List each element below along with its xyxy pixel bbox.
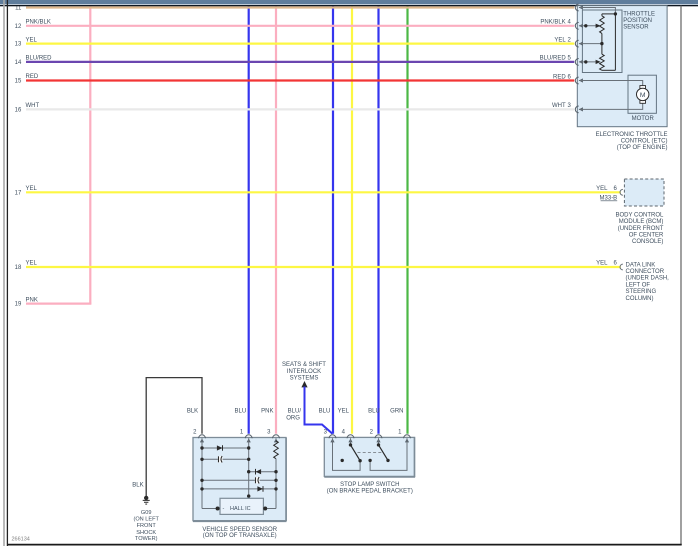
svg-text:FRONT: FRONT	[137, 523, 157, 529]
svg-text:266134: 266134	[12, 537, 30, 543]
svg-text:BLU/RED: BLU/RED	[26, 56, 53, 62]
svg-text:BLK: BLK	[187, 409, 198, 415]
svg-text:BLU: BLU	[319, 409, 331, 415]
svg-text:THROTTLE: THROTTLE	[623, 11, 655, 17]
svg-text:TOWER): TOWER)	[135, 536, 158, 542]
svg-text:PNK/BLK: PNK/BLK	[26, 20, 51, 26]
svg-text:(ON TOP OF TRANSAXLE): (ON TOP OF TRANSAXLE)	[203, 533, 277, 539]
svg-text:CONTROL (ETC): CONTROL (ETC)	[621, 139, 668, 145]
svg-text:RED: RED	[553, 74, 566, 80]
svg-text:INTERLOCK: INTERLOCK	[287, 369, 321, 375]
svg-text:BLU: BLU	[368, 409, 380, 415]
svg-text:BLU/RED: BLU/RED	[540, 56, 567, 62]
svg-text:STOP LAMP SWITCH: STOP LAMP SWITCH	[340, 482, 399, 488]
svg-text:(UNDER FRONT: (UNDER FRONT	[618, 226, 664, 232]
svg-text:YEL: YEL	[26, 261, 38, 267]
svg-text:-: -	[223, 506, 225, 512]
svg-text:WHT: WHT	[552, 103, 566, 109]
svg-text:ORG: ORG	[286, 415, 300, 421]
svg-text:(ON BRAKE PEDAL BRACKET): (ON BRAKE PEDAL BRACKET)	[327, 488, 413, 494]
svg-text:BLU: BLU	[235, 409, 247, 415]
svg-text:G09: G09	[141, 510, 152, 516]
svg-text:RED: RED	[26, 74, 39, 80]
svg-text:M: M	[640, 92, 646, 99]
svg-text:11: 11	[15, 6, 22, 12]
svg-text:COLUMN): COLUMN)	[626, 296, 654, 302]
svg-text:15: 15	[15, 79, 22, 85]
svg-text:13: 13	[15, 42, 22, 48]
svg-text:YEL: YEL	[596, 261, 608, 267]
svg-text:SYSTEMS: SYSTEMS	[290, 375, 319, 381]
svg-text:LEFT OF: LEFT OF	[626, 282, 651, 288]
svg-text:BLK: BLK	[132, 482, 143, 488]
svg-text:16: 16	[15, 108, 22, 114]
svg-text:12: 12	[15, 24, 22, 30]
svg-text:BLU/: BLU/	[288, 409, 302, 415]
svg-text:YEL: YEL	[554, 37, 566, 43]
svg-text:SEATS & SHIFT: SEATS & SHIFT	[282, 362, 326, 368]
svg-text:STEERING: STEERING	[626, 289, 657, 295]
svg-text:MOTOR: MOTOR	[632, 116, 655, 122]
svg-text:17: 17	[15, 190, 22, 196]
svg-text:CONSOLE): CONSOLE)	[632, 239, 663, 245]
svg-text:HALL IC: HALL IC	[230, 506, 251, 512]
svg-text:PNK/BLK: PNK/BLK	[540, 20, 565, 26]
svg-text:19: 19	[15, 302, 22, 308]
svg-text:YEL: YEL	[26, 186, 38, 192]
svg-text:PNK: PNK	[26, 297, 38, 303]
svg-text:YEL: YEL	[338, 409, 350, 415]
svg-text:OF CENTER: OF CENTER	[629, 233, 664, 239]
svg-text:(UNDER DASH,: (UNDER DASH,	[626, 276, 670, 282]
svg-text:(ON LEFT: (ON LEFT	[133, 517, 159, 523]
svg-text:SHOCK: SHOCK	[136, 530, 156, 536]
svg-text:ELECTRONIC THROTTLE: ELECTRONIC THROTTLE	[596, 132, 668, 138]
svg-text:18: 18	[15, 265, 22, 271]
svg-text:14: 14	[15, 60, 22, 66]
svg-text:BODY CONTROL: BODY CONTROL	[615, 212, 664, 218]
svg-text:YEL: YEL	[596, 186, 608, 192]
svg-text:DATA LINK: DATA LINK	[626, 262, 656, 268]
svg-text:WHT: WHT	[26, 103, 40, 109]
svg-text:(TOP OF ENGINE): (TOP OF ENGINE)	[617, 145, 668, 151]
svg-text:POSITION: POSITION	[623, 18, 652, 24]
svg-text:MODULE (BCM): MODULE (BCM)	[619, 219, 664, 225]
svg-text:PNK: PNK	[261, 409, 273, 415]
svg-text:SENSOR: SENSOR	[623, 24, 649, 30]
svg-text:GRN: GRN	[390, 409, 403, 415]
svg-text:CONNECTOR: CONNECTOR	[626, 269, 665, 275]
svg-text:YEL: YEL	[26, 37, 38, 43]
